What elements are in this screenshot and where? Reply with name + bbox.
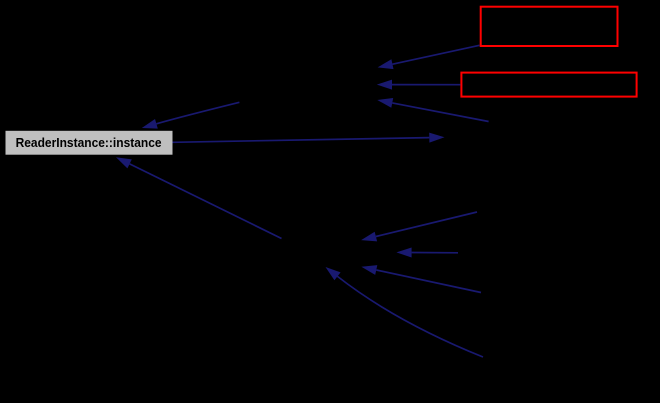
svg-text:ReaderInstance::instance: ReaderInstance::instance xyxy=(16,135,162,150)
